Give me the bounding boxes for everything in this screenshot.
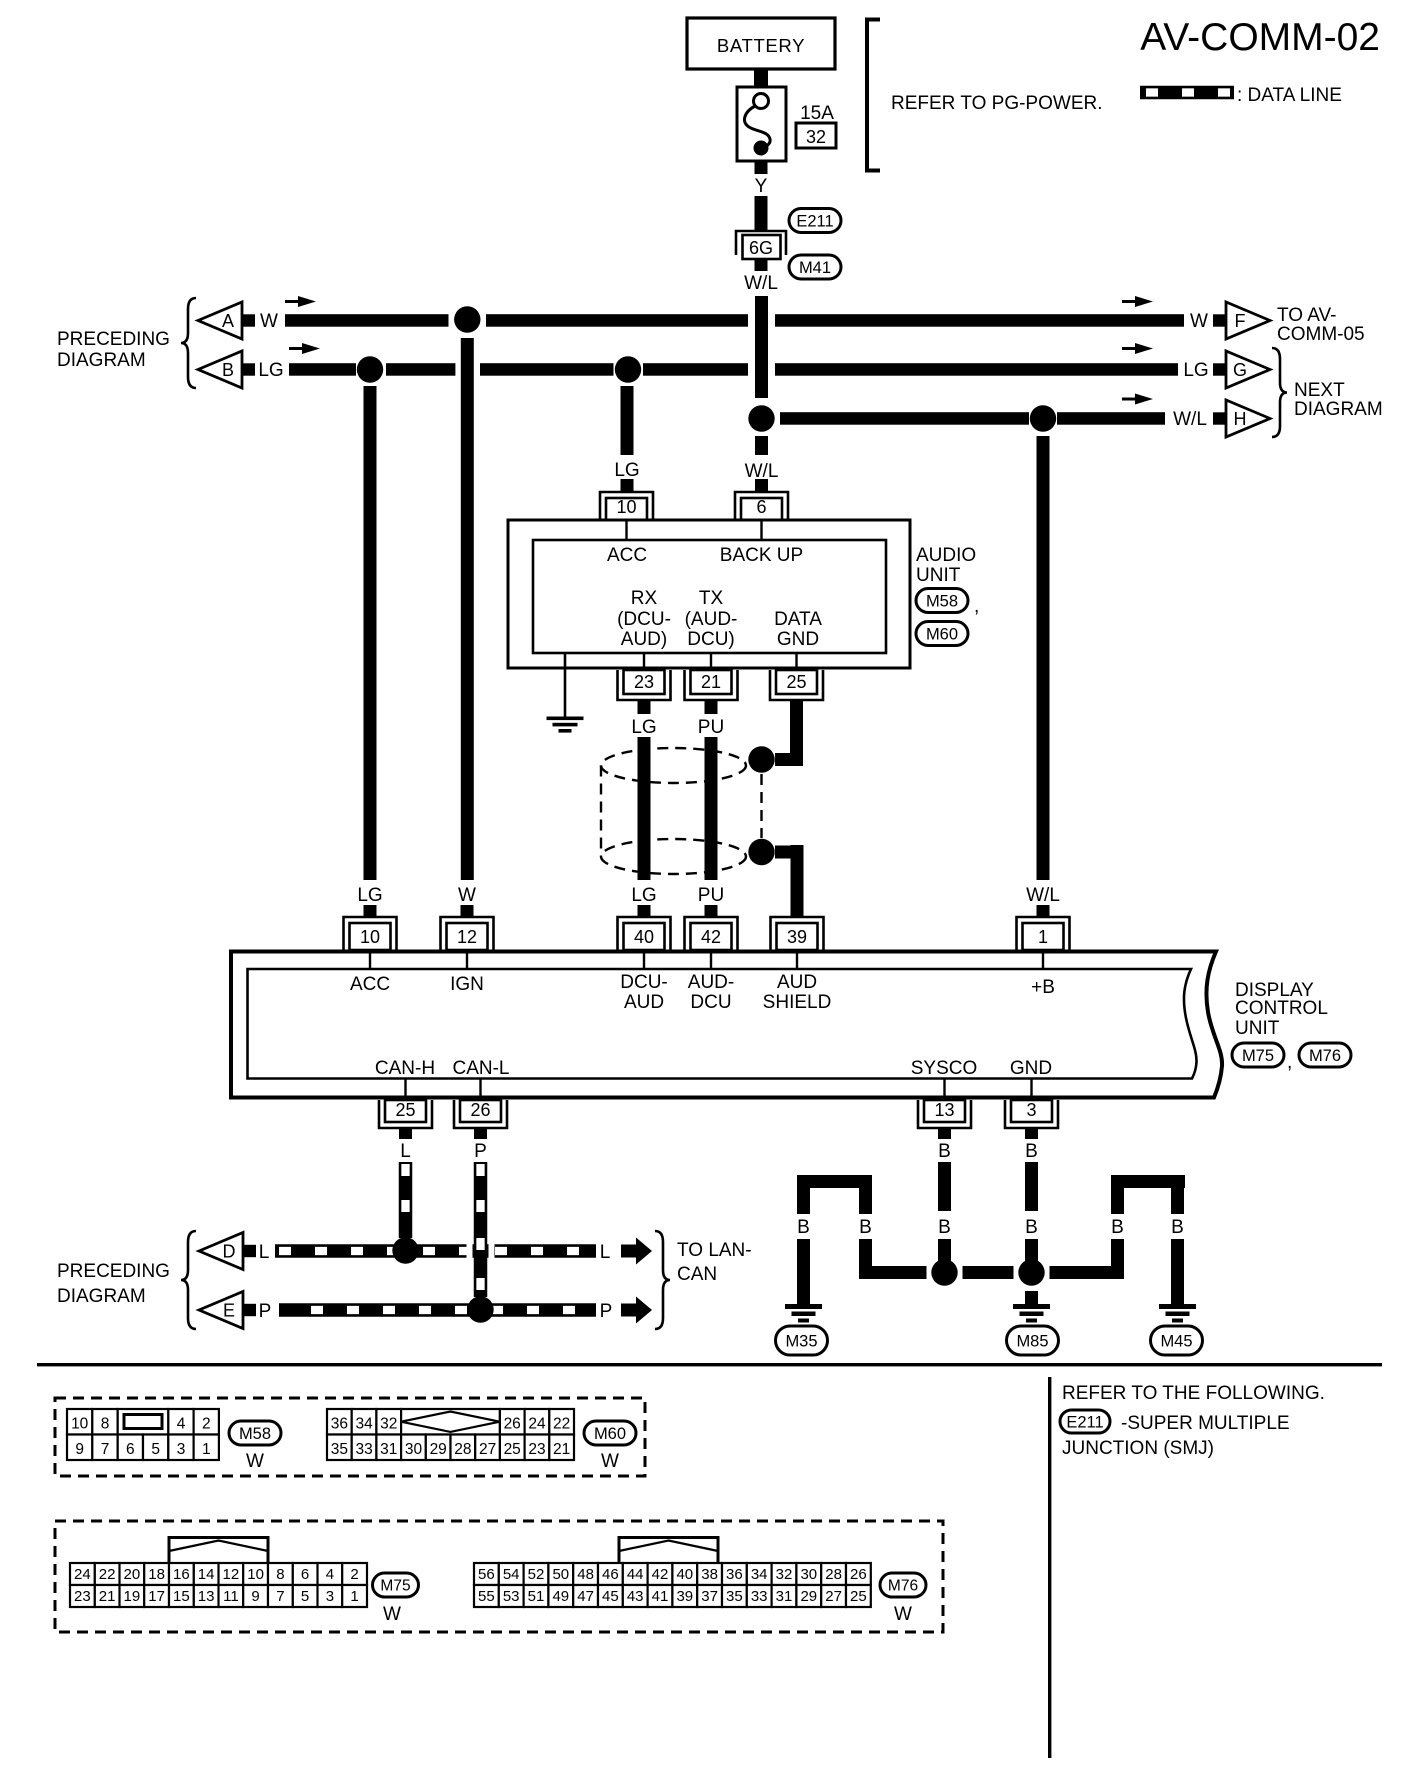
wire label W/L dcu1 — [1026, 885, 1060, 918]
svg-text:1: 1 — [202, 1441, 211, 1458]
svg-text:,: , — [1287, 1052, 1292, 1073]
svg-text:M60: M60 — [926, 625, 958, 643]
svg-text:33: 33 — [355, 1441, 372, 1458]
svg-text:53: 53 — [503, 1588, 520, 1605]
text can-l — [452, 1058, 509, 1079]
wire L stub — [399, 1128, 412, 1162]
arrow right on A — [1122, 296, 1153, 307]
svg-text:D: D — [223, 1242, 236, 1262]
svg-text:W: W — [246, 1451, 264, 1472]
arrow on wire B — [289, 343, 320, 354]
dcu pin stub 39 — [796, 951, 798, 969]
svg-text:4: 4 — [326, 1566, 334, 1583]
svg-text:24: 24 — [528, 1416, 546, 1433]
wire bus B — [289, 363, 1178, 376]
svg-text:DIAGRAM: DIAGRAM — [1294, 399, 1383, 420]
svg-text:5: 5 — [151, 1441, 160, 1458]
brace next diagram — [1272, 348, 1287, 437]
svg-text:40: 40 — [634, 927, 654, 947]
svg-text:W: W — [894, 1604, 912, 1625]
svg-text:M85: M85 — [1016, 1332, 1048, 1350]
svg-text:28: 28 — [825, 1566, 842, 1583]
svg-text:28: 28 — [454, 1441, 471, 1458]
text back up — [720, 545, 803, 566]
text refer to the following — [1062, 1383, 1325, 1404]
svg-text:AUD: AUD — [777, 972, 817, 993]
svg-text:E211: E211 — [796, 212, 833, 230]
connector E211 — [789, 209, 841, 233]
svg-text:20: 20 — [124, 1566, 141, 1583]
divider line — [1048, 1377, 1051, 1758]
svg-text:52: 52 — [528, 1566, 545, 1583]
connector 1 dcu — [1017, 917, 1070, 950]
svg-text:38: 38 — [701, 1566, 718, 1583]
svg-text:M35: M35 — [785, 1332, 817, 1350]
text to lan-can — [677, 1240, 752, 1285]
connector 25 dcu — [379, 1100, 432, 1128]
svg-text:34: 34 — [751, 1566, 768, 1583]
text super multiple junction — [1062, 1413, 1290, 1459]
wire B from sysco — [938, 1128, 951, 1262]
svg-text:W: W — [458, 885, 476, 906]
junction on A — [454, 306, 480, 332]
label P right — [600, 1301, 613, 1322]
svg-text:B: B — [938, 1217, 951, 1238]
svg-text:AUD): AUD) — [621, 629, 667, 650]
junction on B (left) — [357, 356, 383, 382]
dashed box connectors 1 — [55, 1398, 645, 1476]
svg-text:8: 8 — [276, 1566, 284, 1583]
svg-text:7: 7 — [276, 1588, 284, 1605]
svg-text:ACC: ACC — [350, 974, 390, 995]
junction sysco-b — [931, 1259, 957, 1285]
connector 40 dcu — [618, 917, 671, 950]
connector 39 dcu — [771, 917, 824, 950]
data line L vertical — [399, 1162, 413, 1238]
svg-text:6: 6 — [301, 1566, 309, 1583]
text aud shield — [763, 972, 832, 1013]
ground M85 — [1007, 1304, 1059, 1355]
pin stub 21 — [710, 653, 712, 670]
svg-text:31: 31 — [380, 1441, 397, 1458]
svg-text:30: 30 — [800, 1566, 817, 1583]
svg-text:B: B — [1025, 1141, 1038, 1162]
svg-text:21: 21 — [701, 672, 721, 692]
svg-text:-SUPER MULTIPLE: -SUPER MULTIPLE — [1121, 1413, 1290, 1434]
wire P stub — [474, 1128, 487, 1162]
svg-text:PRECEDING: PRECEDING — [57, 1261, 170, 1282]
svg-text:18: 18 — [148, 1566, 165, 1583]
svg-text:7: 7 — [101, 1441, 110, 1458]
svg-text:DCU): DCU) — [687, 629, 735, 650]
svg-text:TO LAN-: TO LAN- — [677, 1240, 752, 1261]
connector 3 dcu — [1005, 1100, 1058, 1128]
dcu pin stub 1 — [1042, 951, 1044, 969]
wire 6G to W/L — [744, 259, 778, 294]
svg-text:45: 45 — [602, 1588, 619, 1605]
svg-text:3: 3 — [177, 1441, 186, 1458]
svg-text:40: 40 — [676, 1566, 693, 1583]
svg-text:6: 6 — [126, 1441, 135, 1458]
svg-text:(DCU-: (DCU- — [617, 609, 671, 630]
svg-text:25: 25 — [786, 672, 806, 692]
shield node top — [748, 746, 774, 772]
arrow on wire A — [285, 296, 316, 307]
text tx aud-dcu — [685, 588, 738, 650]
svg-text:M58: M58 — [239, 1425, 271, 1443]
svg-text:36: 36 — [726, 1566, 743, 1583]
text preceding diagram (top) — [57, 329, 170, 371]
svg-text:B: B — [1171, 1217, 1184, 1238]
connector M75 label — [1232, 1043, 1292, 1073]
svg-text:1: 1 — [1038, 927, 1048, 947]
connector M58 label — [916, 589, 979, 618]
svg-text:22: 22 — [99, 1566, 116, 1583]
dcu pin stub can-h — [404, 1078, 406, 1097]
wire shield from pin25 — [775, 700, 803, 766]
svg-text:48: 48 — [577, 1566, 594, 1583]
ground audio — [547, 653, 584, 733]
svg-text:54: 54 — [503, 1566, 520, 1583]
svg-text:RX: RX — [631, 588, 658, 609]
svg-text:51: 51 — [528, 1588, 545, 1605]
pin stub backup — [760, 520, 762, 540]
junction on D — [392, 1237, 418, 1263]
wire LG to audio pin 10 — [614, 386, 639, 492]
junction on E — [467, 1296, 493, 1322]
svg-text:L: L — [600, 1242, 611, 1263]
svg-text:W/L: W/L — [744, 273, 778, 294]
label W right — [1190, 311, 1208, 332]
connector 10 dcu — [344, 917, 397, 950]
svg-text:,: , — [974, 596, 979, 617]
svg-text:Y: Y — [755, 176, 768, 197]
svg-text:6G: 6G — [749, 238, 773, 258]
svg-text:25: 25 — [395, 1100, 415, 1120]
fuse 15A 32 — [737, 87, 836, 161]
svg-text:W: W — [383, 1604, 401, 1625]
connector M60 label — [916, 622, 968, 646]
svg-text:LG: LG — [631, 885, 656, 906]
svg-text:B: B — [859, 1217, 872, 1238]
ground M35 — [776, 1304, 828, 1355]
junction gnd-b — [1018, 1259, 1044, 1285]
text can-h — [375, 1058, 435, 1079]
node D — [199, 1233, 269, 1270]
pin stub acc — [625, 520, 627, 540]
connector M58 footer label — [229, 1421, 281, 1472]
wire label LG dcu10 — [357, 885, 382, 918]
label LG right — [1183, 360, 1208, 381]
svg-text:19: 19 — [124, 1588, 141, 1605]
dcu pin stub gnd — [1030, 1078, 1032, 1097]
svg-text:E: E — [223, 1301, 235, 1321]
dcu pin stub 10 — [369, 951, 371, 969]
svg-text:44: 44 — [627, 1566, 644, 1583]
svg-text:W/L: W/L — [745, 461, 779, 482]
wire bus H — [780, 412, 1165, 425]
svg-text:IGN: IGN — [450, 974, 484, 995]
svg-text:L: L — [400, 1141, 411, 1162]
svg-text:30: 30 — [405, 1441, 423, 1458]
svg-text:AV-COMM-02: AV-COMM-02 — [1140, 16, 1380, 59]
data line P vertical — [474, 1162, 488, 1297]
shield node bottom — [748, 839, 774, 865]
svg-text:17: 17 — [148, 1588, 165, 1605]
text to av-comm-05 — [1277, 305, 1365, 345]
svg-text:DCU: DCU — [690, 992, 731, 1013]
svg-text:AUD: AUD — [624, 992, 664, 1013]
svg-text:10: 10 — [71, 1416, 89, 1433]
svg-text:10: 10 — [360, 927, 380, 947]
connector grid M60 — [327, 1409, 574, 1460]
svg-text:15: 15 — [173, 1588, 190, 1605]
arrow to lan-can D — [621, 1238, 652, 1265]
svg-text:E211: E211 — [1066, 1413, 1103, 1431]
wire label W dcu12 — [458, 885, 476, 918]
connector M76 label — [1299, 1043, 1351, 1067]
svg-text:B: B — [1111, 1217, 1124, 1238]
svg-text:CAN-H: CAN-H — [375, 1058, 435, 1079]
connector 25 audio — [770, 670, 823, 700]
svg-text:31: 31 — [776, 1588, 793, 1605]
svg-text:47: 47 — [577, 1588, 594, 1605]
wire B loop right — [1111, 1175, 1185, 1304]
title AV-COMM-02 — [1140, 16, 1380, 59]
svg-text:2: 2 — [350, 1566, 358, 1583]
text +b — [1031, 977, 1055, 998]
dcu pin stub can-l — [479, 1078, 481, 1097]
svg-text:36: 36 — [331, 1416, 348, 1433]
wire battery to fuse — [754, 69, 768, 87]
junction W/L — [748, 405, 774, 431]
wire W/L to audio pin 6 — [745, 436, 779, 492]
svg-text:M60: M60 — [594, 1425, 626, 1443]
wire shield to pin 39 — [775, 845, 804, 918]
svg-text:39: 39 — [676, 1588, 693, 1605]
svg-text:14: 14 — [198, 1566, 215, 1583]
data line E row — [279, 1303, 596, 1317]
svg-text:DIAGRAM: DIAGRAM — [57, 350, 146, 371]
svg-text:TO AV-: TO AV- — [1277, 305, 1337, 326]
wire LG pin23 down — [631, 700, 656, 880]
text dcu-aud — [620, 972, 668, 1013]
svg-text:26: 26 — [470, 1100, 490, 1120]
display control unit box — [231, 952, 1222, 1098]
svg-text:23: 23 — [74, 1588, 91, 1605]
svg-text:LG: LG — [631, 717, 656, 738]
svg-text:42: 42 — [652, 1566, 669, 1583]
svg-text:25: 25 — [850, 1588, 867, 1605]
svg-text:27: 27 — [479, 1441, 496, 1458]
svg-text:GND: GND — [1010, 1058, 1052, 1079]
svg-text:BATTERY: BATTERY — [717, 35, 805, 56]
svg-text:37: 37 — [701, 1588, 718, 1605]
svg-text:11: 11 — [223, 1588, 239, 1605]
svg-text:M76: M76 — [888, 1578, 918, 1595]
svg-text:UNIT: UNIT — [1235, 1018, 1280, 1039]
svg-text:GND: GND — [777, 629, 819, 650]
svg-text:1: 1 — [350, 1588, 358, 1605]
label L right — [600, 1242, 611, 1263]
svg-text:49: 49 — [552, 1588, 569, 1605]
svg-text:55: 55 — [478, 1588, 495, 1605]
dcu pin stub 40 — [643, 951, 645, 969]
pin stub 23 — [643, 653, 645, 670]
svg-text:26: 26 — [504, 1416, 521, 1433]
svg-text:B: B — [222, 360, 234, 380]
svg-text:ACC: ACC — [607, 545, 647, 566]
svg-text:26: 26 — [850, 1566, 867, 1583]
wire to ground M85 — [1025, 1291, 1038, 1304]
svg-text:13: 13 — [934, 1100, 954, 1120]
svg-text:(AUD-: (AUD- — [685, 609, 738, 630]
wire B bus — [859, 1266, 1124, 1279]
connector 13 dcu — [918, 1100, 971, 1128]
svg-text:P: P — [474, 1141, 487, 1162]
brace preceding bottom — [181, 1231, 196, 1329]
svg-text:M75: M75 — [1242, 1047, 1274, 1065]
svg-text:50: 50 — [552, 1566, 569, 1583]
junction on B (mid) — [615, 356, 641, 382]
svg-text:LG: LG — [1183, 360, 1208, 381]
audio unit U1 box — [508, 520, 910, 668]
wire B loop left — [797, 1175, 872, 1304]
svg-text:AUD-: AUD- — [688, 972, 734, 993]
svg-text:W: W — [1190, 311, 1208, 332]
svg-text:P: P — [259, 1301, 272, 1322]
dcu pin stub 42 — [710, 951, 712, 969]
svg-text:M45: M45 — [1160, 1332, 1192, 1350]
connector M75 footer label — [373, 1573, 419, 1625]
svg-text:AUDIO: AUDIO — [916, 545, 976, 566]
connector M41 — [789, 255, 841, 279]
dcu pin stub sysco — [943, 1078, 945, 1097]
svg-text:35: 35 — [331, 1441, 348, 1458]
node A — [198, 302, 278, 339]
svg-text:32: 32 — [806, 127, 826, 147]
svg-text:34: 34 — [355, 1416, 373, 1433]
svg-text:L: L — [259, 1242, 270, 1263]
svg-text:+B: +B — [1031, 977, 1055, 998]
svg-text:REFER TO PG-POWER.: REFER TO PG-POWER. — [891, 93, 1103, 114]
svg-text:41: 41 — [652, 1588, 669, 1605]
svg-text:13: 13 — [198, 1588, 215, 1605]
svg-text:32: 32 — [380, 1416, 397, 1433]
connector M76 footer label — [880, 1573, 926, 1625]
wire Y — [755, 161, 768, 231]
svg-text:15A: 15A — [800, 103, 834, 124]
node G — [1213, 351, 1270, 388]
svg-text:B: B — [938, 1141, 951, 1162]
svg-text:39: 39 — [787, 927, 807, 947]
svg-text:42: 42 — [701, 927, 721, 947]
connector 12 dcu — [441, 917, 494, 950]
dashed box connectors 2 — [55, 1521, 943, 1632]
svg-text:B: B — [1025, 1217, 1038, 1238]
svg-text:3: 3 — [326, 1588, 334, 1605]
svg-text:56: 56 — [478, 1566, 495, 1583]
arrow on wire H — [1122, 394, 1153, 405]
svg-text:F: F — [1235, 311, 1246, 331]
brace to lan-can — [655, 1231, 670, 1329]
wire label LG dcu40 — [631, 885, 656, 918]
svg-text:SYSCO: SYSCO — [911, 1058, 978, 1079]
text refer to pg-power — [891, 93, 1103, 114]
svg-text:W: W — [260, 311, 278, 332]
text next diagram — [1294, 380, 1383, 420]
svg-text:M41: M41 — [799, 259, 831, 277]
text ign dcu — [450, 974, 484, 995]
battery — [687, 18, 835, 69]
svg-text:10: 10 — [247, 1566, 264, 1583]
svg-text:PU: PU — [698, 885, 724, 906]
svg-text:CAN-L: CAN-L — [452, 1058, 509, 1079]
svg-text:12: 12 — [223, 1566, 240, 1583]
svg-text:16: 16 — [173, 1566, 190, 1583]
svg-text:6: 6 — [756, 497, 766, 517]
connector 21 audio — [685, 670, 738, 700]
svg-text:29: 29 — [430, 1441, 447, 1458]
text display control unit — [1235, 980, 1328, 1039]
data line D row — [275, 1243, 596, 1260]
connector 6G — [736, 231, 786, 259]
connector grid M76 — [474, 1538, 871, 1608]
svg-text:PU: PU — [698, 717, 724, 738]
connector 26 dcu — [454, 1100, 507, 1128]
svg-text:LG: LG — [258, 360, 283, 381]
dcu pin stub 12 — [466, 951, 468, 969]
svg-text:BACK UP: BACK UP — [720, 545, 803, 566]
svg-text:46: 46 — [602, 1566, 619, 1583]
connector 10 audio — [600, 492, 653, 520]
arrow to lan-can E — [621, 1297, 652, 1324]
svg-text:W/L: W/L — [1026, 885, 1060, 906]
wire bus A — [285, 314, 1184, 327]
svg-text:A: A — [222, 311, 234, 331]
arrow right on B — [1122, 343, 1153, 354]
svg-text:DCU-: DCU- — [620, 972, 668, 993]
node B — [198, 351, 284, 388]
svg-text:CONTROL: CONTROL — [1235, 998, 1328, 1019]
svg-text:8: 8 — [101, 1416, 110, 1433]
svg-text:23: 23 — [634, 672, 654, 692]
text acc — [607, 545, 647, 566]
text data gnd — [774, 609, 822, 650]
wire B from gnd — [1025, 1128, 1038, 1262]
text acc dcu — [350, 974, 390, 995]
svg-text:32: 32 — [776, 1566, 793, 1583]
wire W long — [461, 338, 474, 880]
svg-text:TX: TX — [699, 588, 724, 609]
svg-text:33: 33 — [751, 1588, 768, 1605]
node H — [1213, 400, 1270, 437]
svg-text:24: 24 — [74, 1566, 91, 1583]
wire LG long — [364, 386, 377, 880]
svg-text:LG: LG — [357, 885, 382, 906]
connector 23 audio — [618, 670, 671, 700]
svg-text:21: 21 — [553, 1441, 570, 1458]
legend data line — [1140, 85, 1342, 106]
svg-text:REFER TO THE FOLLOWING.: REFER TO THE FOLLOWING. — [1062, 1383, 1325, 1404]
connector 6 audio — [735, 492, 788, 520]
svg-text:H: H — [1234, 409, 1247, 429]
separator line — [37, 1363, 1382, 1366]
text aud-dcu — [688, 972, 734, 1013]
connector grid M75 — [70, 1538, 367, 1608]
svg-text:JUNCTION (SMJ): JUNCTION (SMJ) — [1062, 1438, 1214, 1459]
text gnd dcu — [1010, 1058, 1052, 1079]
